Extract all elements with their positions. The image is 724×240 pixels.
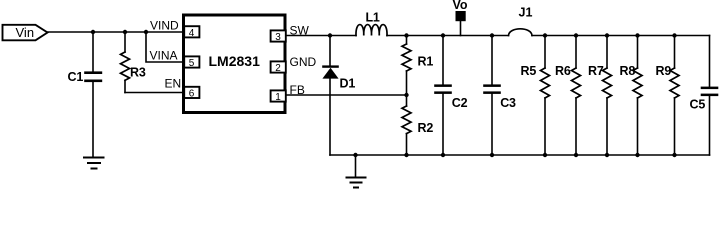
- junction dot C2 bottom: [441, 153, 445, 157]
- pin 2 GND: [271, 55, 317, 74]
- junction dot gnd tap: [353, 153, 357, 157]
- wire ground rail: [330, 154, 710, 156]
- junction dot R5 top: [543, 33, 547, 37]
- resistor R8: [620, 36, 643, 156]
- svg-text:6: 6: [189, 88, 195, 99]
- svg-text:VIND: VIND: [150, 19, 179, 33]
- svg-text:R2: R2: [418, 121, 434, 135]
- svg-text:R8: R8: [620, 64, 636, 78]
- svg-text:J1: J1: [519, 6, 533, 20]
- svg-text:C2: C2: [452, 96, 468, 110]
- svg-text:GND: GND: [290, 55, 317, 69]
- svg-text:2: 2: [275, 63, 281, 74]
- junction dot R3 tap: [123, 30, 127, 34]
- pin 5 VINA: [150, 49, 200, 70]
- wire EN: [125, 92, 183, 94]
- junction dot R6 bottom: [574, 153, 578, 157]
- node Vin: [3, 25, 48, 41]
- junction dot C3 top: [490, 33, 494, 37]
- diode D1: [322, 36, 355, 156]
- junction dot R8 bottom: [635, 153, 639, 157]
- junction dot R9 bottom: [672, 153, 676, 157]
- svg-text:5: 5: [189, 58, 195, 69]
- capacitor C3: [483, 36, 516, 156]
- svg-text:R7: R7: [588, 64, 604, 78]
- wire input rail Vin to VIND: [48, 31, 184, 33]
- ground (main): [347, 155, 366, 188]
- junction dot R7 top: [605, 33, 609, 37]
- resistor R2: [402, 95, 433, 155]
- wire FB to divider: [286, 94, 407, 96]
- junction dot R2 bottom: [404, 153, 408, 157]
- resistor R5: [521, 36, 550, 156]
- resistor R3: [121, 32, 146, 93]
- jumper J1: [509, 6, 533, 36]
- junction dot C1 tap: [91, 30, 95, 34]
- svg-text:R1: R1: [418, 55, 434, 69]
- svg-text:L1: L1: [366, 11, 380, 25]
- pin 1 FB: [271, 83, 305, 103]
- wire J1 to C5: [532, 35, 710, 37]
- svg-text:EN: EN: [165, 77, 182, 91]
- pin 4 VIND: [150, 19, 199, 39]
- IC U1 LM2831: [184, 15, 286, 113]
- svg-text:VINA: VINA: [150, 49, 178, 63]
- wire SW to L1: [286, 35, 356, 37]
- svg-text:R9: R9: [656, 64, 672, 78]
- inductor L1: [356, 11, 387, 36]
- svg-text:R3: R3: [130, 66, 146, 80]
- svg-text:LM2831: LM2831: [209, 53, 261, 69]
- svg-text:R5: R5: [521, 64, 537, 78]
- wire VINA branch: [146, 32, 183, 62]
- junction dot R7 bottom: [605, 153, 609, 157]
- svg-text:Vo: Vo: [453, 0, 468, 12]
- svg-text:D1: D1: [340, 77, 356, 91]
- resistor R6: [555, 36, 581, 156]
- svg-text:3: 3: [275, 32, 281, 43]
- ground (C1): [84, 158, 104, 169]
- svg-text:1: 1: [275, 92, 281, 103]
- svg-text:Vin: Vin: [16, 25, 35, 40]
- junction dot VINA tap: [144, 30, 148, 34]
- junction dot R6 top: [574, 33, 578, 37]
- svg-text:C1: C1: [68, 70, 84, 84]
- svg-text:C3: C3: [500, 96, 516, 110]
- capacitor C2: [434, 36, 467, 156]
- svg-text:4: 4: [189, 28, 195, 39]
- junction dot R1 top: [404, 33, 408, 37]
- svg-text:R6: R6: [555, 64, 571, 78]
- pin 3 SW: [271, 24, 310, 44]
- wire L1 to J1: [387, 35, 509, 37]
- junction dot R8 top: [635, 33, 639, 37]
- resistor R9: [656, 36, 680, 156]
- resistor R1: [402, 36, 433, 96]
- junction dot D1 tap: [328, 33, 332, 37]
- junction dot R5 bottom: [543, 153, 547, 157]
- resistor R7: [588, 36, 612, 156]
- capacitor C5: [690, 36, 719, 156]
- junction dot R9 top: [672, 33, 676, 37]
- junction dot R1 R2 FB: [404, 93, 408, 97]
- junction dot C3 bottom: [490, 153, 494, 157]
- capacitor C1: [68, 32, 103, 157]
- node Vo: [453, 0, 468, 36]
- junction dot C2 top: [441, 33, 445, 37]
- svg-text:C5: C5: [690, 98, 706, 112]
- pin 6 EN: [165, 77, 200, 100]
